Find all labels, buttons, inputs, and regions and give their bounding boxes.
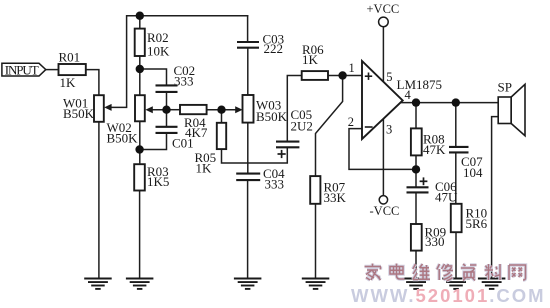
svg-text:2U2: 2U2 [291, 119, 313, 134]
svg-text:104: 104 [463, 165, 483, 180]
svg-text:WWW.520101.COM: WWW.520101.COM [351, 285, 546, 306]
svg-text:LM1875: LM1875 [397, 77, 443, 92]
svg-text:1K: 1K [60, 75, 77, 90]
svg-text:-VCC: -VCC [370, 204, 400, 218]
svg-text:INPUT: INPUT [5, 63, 39, 78]
svg-text:333: 333 [265, 176, 285, 191]
svg-text:SP: SP [498, 80, 512, 95]
svg-text:333: 333 [174, 74, 194, 89]
svg-text:1: 1 [349, 61, 355, 75]
svg-text:4K7: 4K7 [185, 125, 208, 140]
svg-text:B50K: B50K [63, 106, 95, 121]
svg-text:222: 222 [264, 41, 284, 56]
svg-text:33K: 33K [324, 190, 347, 205]
svg-text:47K: 47K [423, 142, 446, 157]
svg-text:1K: 1K [196, 161, 213, 176]
svg-text:2: 2 [348, 115, 354, 129]
svg-text:1K5: 1K5 [147, 174, 169, 189]
svg-text:B50K: B50K [256, 109, 288, 124]
svg-text:1K: 1K [302, 52, 319, 67]
svg-text:3: 3 [386, 123, 392, 137]
svg-text:10K: 10K [147, 44, 170, 59]
svg-text:B50K: B50K [107, 130, 139, 145]
svg-text:5R6: 5R6 [466, 216, 488, 231]
svg-text:47U: 47U [435, 189, 458, 204]
svg-text:4: 4 [405, 88, 412, 102]
svg-text:330: 330 [425, 234, 445, 249]
svg-text:R01: R01 [59, 50, 81, 65]
svg-text:5: 5 [386, 70, 392, 84]
svg-text:+VCC: +VCC [367, 2, 400, 16]
